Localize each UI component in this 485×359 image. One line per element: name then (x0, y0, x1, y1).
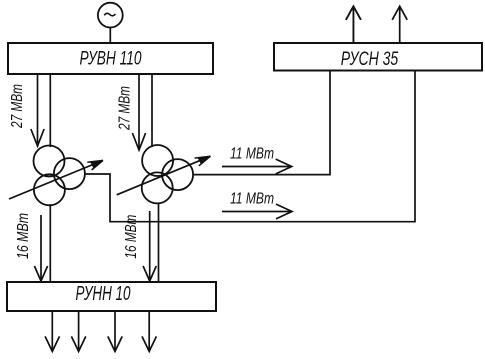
svg-text:27 МВт: 27 МВт (116, 86, 133, 131)
svg-text:11 МВт: 11 МВт (230, 146, 274, 163)
svg-text:РУНН 10: РУНН 10 (76, 283, 131, 305)
svg-text:11 МВт: 11 МВт (230, 191, 274, 208)
svg-text:16 МВт: 16 МВт (123, 215, 140, 259)
svg-text:РУСН 35: РУСН 35 (341, 49, 399, 70)
svg-text:16 МВт: 16 МВт (15, 213, 32, 259)
svg-text:РУВН 110: РУВН 110 (80, 49, 142, 70)
svg-text:27 МВт: 27 МВт (9, 84, 26, 129)
